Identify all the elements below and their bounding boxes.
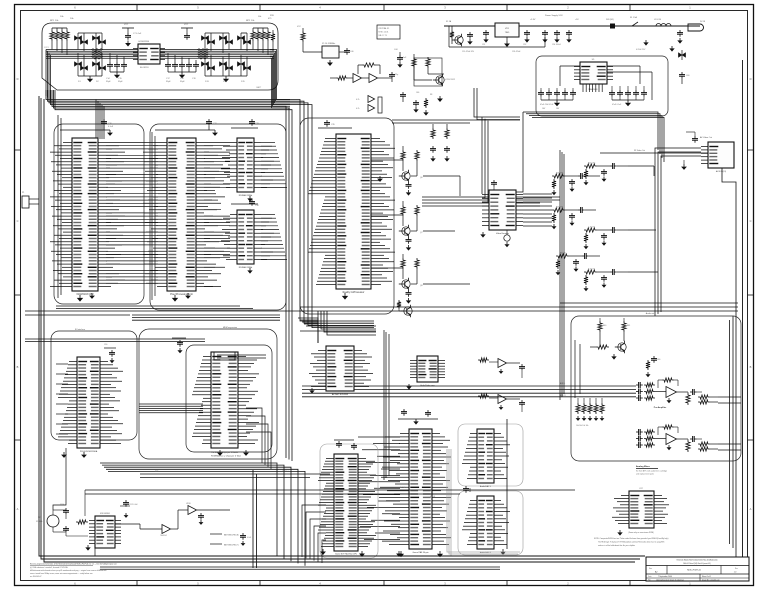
capacitor C14 C15 C16 filter caps left <box>109 53 111 62</box>
svg-text:C40: C40 <box>350 51 353 53</box>
svg-text:rev 2004-09-07: rev 2004-09-07 <box>30 575 42 578</box>
resistor pack comparators <box>378 97 382 113</box>
capacitor C80 bias <box>653 356 655 359</box>
svg-text:Analog Mixer: Analog Mixer <box>636 465 650 468</box>
ground U13 <box>311 388 313 390</box>
resistor F6 shunt <box>584 275 588 285</box>
capacitor C45 <box>402 92 404 95</box>
resistor network RP1 pull-ups <box>51 28 53 30</box>
ground audio divider <box>589 416 591 418</box>
wire bus encoder bottom pins <box>582 84 584 92</box>
svg-text:F1 2A: F1 2A <box>446 20 452 23</box>
resistor R8 <box>424 98 428 108</box>
svg-text:Nintendo Made (Nin)Tendo64 20: Nintendo Made (Nin)Tendo64 2001 Mar-06 (… <box>677 559 718 562</box>
capacitor AMP-R out <box>690 438 693 440</box>
title block date row <box>699 574 701 581</box>
container box audio DAC upper <box>458 424 523 486</box>
capacitor C111 <box>65 526 67 529</box>
svg-text:C: C <box>17 219 19 223</box>
svg-text:S1 1.5A: S1 1.5A <box>630 16 637 19</box>
resistor R2 feedback <box>362 63 376 67</box>
ground J3 <box>400 551 402 554</box>
svg-text:C-Vid 75: C-Vid 75 <box>588 227 595 229</box>
capacitor C105 slot bypass <box>334 439 354 441</box>
ground audio divider <box>577 416 579 418</box>
wire bus audio vertical pair <box>252 470 254 568</box>
ic U10 video DAC <box>489 190 516 230</box>
svg-text:AUDIO-L: AUDIO-L <box>282 470 289 473</box>
svg-text:BL01RN1: BL01RN1 <box>140 67 150 69</box>
label battery pad 1 <box>210 533 222 535</box>
capacitor F2 filter <box>603 169 605 172</box>
wire bus mid right pair <box>422 196 560 198</box>
table legend crystal frequencies <box>377 25 400 39</box>
diode D20 reverse protect <box>610 24 615 29</box>
wire bus PPU to RDRAM interconnect <box>204 142 230 144</box>
transistor Q10 audio <box>618 343 626 351</box>
svg-text:10k: 10k <box>258 16 261 18</box>
op-amp AMP-L pre-amplifier <box>666 387 677 398</box>
capacitor C110 <box>65 508 67 511</box>
comparator U8A <box>368 96 375 103</box>
svg-text:P1: P1 <box>22 192 24 194</box>
wire bus middle right segment <box>560 302 738 304</box>
svg-text:C52: C52 <box>523 44 526 46</box>
svg-text:Q8: Q8 <box>420 285 423 287</box>
svg-text:4.7k: 4.7k <box>356 108 359 110</box>
op-amp U19B buffer <box>188 506 197 515</box>
svg-text:Q7: Q7 <box>420 232 423 234</box>
svg-text:Reality CoProcessor: Reality CoProcessor <box>343 291 365 294</box>
capacitor AMP-L out <box>690 391 693 393</box>
container box memory outer <box>139 329 277 459</box>
wire bus DAC outputs fan <box>523 193 552 195</box>
wire video encoder bottom bus <box>523 112 658 150</box>
svg-text:RF Video Out: RF Video Out <box>634 149 645 152</box>
svg-text:B&Y (75): B&Y (75) <box>588 163 596 165</box>
svg-text:47uF 0.1uF: 47uF 0.1uF <box>612 104 622 106</box>
capacitor F4 coupling <box>610 229 613 231</box>
svg-text:AUD L: AUD L <box>560 382 565 385</box>
op-amp stage B <box>478 394 489 398</box>
inverter U7A <box>353 74 362 83</box>
wire bus cross middle <box>25 310 738 312</box>
capacitor C55 <box>568 30 570 33</box>
svg-text:U18 BU9801: U18 BU9801 <box>100 513 110 515</box>
ground U1 <box>79 295 81 298</box>
svg-text:47uF 47uF 47uF: 47uF 47uF 47uF <box>540 104 554 106</box>
ground U17 <box>619 530 621 532</box>
svg-text:C: C <box>750 219 752 223</box>
op-amp AMP-R pre-amplifier <box>666 434 677 445</box>
wire bus drop to CPU column <box>95 100 97 140</box>
label battery pad 2 <box>210 543 222 545</box>
svg-text:DC IN: DC IN <box>700 21 706 23</box>
wire bus right exit bend <box>270 50 290 100</box>
ic U4 EMI filter array <box>138 44 160 64</box>
ground U10 <box>482 232 484 234</box>
capacitor C70 bypass <box>493 180 495 183</box>
wire vertical pair PPU box <box>151 132 153 300</box>
svg-text:Pixel Processing Unit: Pixel Processing Unit <box>170 293 193 296</box>
resistor AMP-R feedback <box>662 425 674 429</box>
svg-text:Game PAK 50-pin: Game PAK 50-pin <box>413 551 429 554</box>
ic U6 Reality CoProcessor <box>336 134 371 289</box>
op-amp U19A buffer <box>162 525 171 534</box>
svg-text:RP1 10k: RP1 10k <box>50 20 59 22</box>
svg-text:R8: R8 <box>430 94 432 96</box>
svg-text:B: B <box>750 365 752 369</box>
ground audio divider <box>595 416 597 418</box>
transistor Q4 reset <box>436 76 444 84</box>
svg-text:and are is of the bufferboard: and are is of the bufferboard she fits y… <box>598 544 635 547</box>
capacitor Q7 emitter <box>408 237 410 240</box>
border zone ticks right <box>748 149 754 151</box>
capacitor C52 <box>526 30 528 33</box>
container box CPU group <box>54 124 144 304</box>
ground U20 <box>322 549 324 552</box>
svg-text:A: A <box>750 507 752 511</box>
ic U11 PIF-NUS <box>77 357 100 448</box>
wire stage outputs right <box>423 175 460 177</box>
wire bus video drop <box>559 150 561 400</box>
resistor F1 series <box>552 174 565 178</box>
wire bus brick right to game pak <box>246 408 262 463</box>
crystal X2 32kHz <box>47 515 59 527</box>
resistor F4 shunt <box>584 233 588 243</box>
ic U17 expansion audio <box>629 491 654 528</box>
wire bus AV connector drop <box>655 148 701 316</box>
wire vertical snake left of CPU <box>57 115 59 298</box>
svg-text:Rev: Rev <box>735 568 738 570</box>
svg-text:4.7k: 4.7k <box>356 99 359 101</box>
ground Q10 <box>613 354 615 356</box>
capacitor bank encoder right <box>611 86 613 90</box>
svg-text:Pre-Amplifier: Pre-Amplifier <box>654 406 667 409</box>
capacitor F6 coupling <box>610 271 613 273</box>
resistor AMP-R out pair <box>698 442 710 446</box>
svg-text:D: D <box>750 77 752 81</box>
wire audio outputs right <box>718 396 741 398</box>
wire bus brick header <box>217 354 266 356</box>
container box audio amplifier <box>571 316 741 461</box>
svg-text:33pF: 33pF <box>166 81 171 83</box>
ground encoder caps right <box>627 100 629 103</box>
ground controller filter left <box>89 76 91 79</box>
title block frame <box>646 557 749 581</box>
capacitor C33 bypass RAM1 <box>231 127 258 129</box>
ground filter F4 <box>603 241 605 243</box>
svg-text:ROM/Balance = Chips per 4 Tota: ROM/Balance = Chips per 4 Total <box>211 455 241 458</box>
wire right rail lower pair <box>732 316 734 548</box>
wire bus audio input lines <box>302 385 636 387</box>
svg-text:AV Video Out: AV Video Out <box>700 136 712 139</box>
connector P1 edge pad left frame <box>22 196 29 208</box>
ground AMP-L opamp <box>668 398 670 400</box>
container box serial interface <box>51 331 137 440</box>
capacitor C112 bypass <box>120 505 130 507</box>
resistor F2 shunt <box>584 169 588 179</box>
svg-text:Size: Size <box>649 568 652 570</box>
diode array D5-D8 lower <box>77 53 79 76</box>
inverter U7B <box>369 74 378 83</box>
svg-text:B: B <box>17 365 19 369</box>
wire bus main horizontal PI bus staircase <box>46 90 374 321</box>
ground U14 <box>408 384 410 386</box>
svg-text:RDRAM 18Mb: RDRAM 18Mb <box>239 266 253 269</box>
capacitor C31 bypass PPU <box>155 129 215 131</box>
capacitor C113 <box>200 513 202 516</box>
diode array D17 D18 upper far right <box>240 33 242 50</box>
diode array D9-D12 upper right <box>204 33 206 50</box>
svg-text:The Brick = Chips per 5 Banks: The Brick = Chips per 5 Banks <box>211 452 238 454</box>
ground filter F1 <box>571 187 573 189</box>
wire power rail top <box>444 25 700 27</box>
resistor F5 shunt <box>556 259 560 269</box>
ground U6 <box>344 293 346 296</box>
svg-text:Audio out: Audio out <box>646 312 655 315</box>
svg-text:Sheet 1 of 1: Sheet 1 of 1 <box>702 575 711 578</box>
wire J2 to right rail <box>722 168 736 560</box>
resistor Q8a collector <box>401 258 405 269</box>
ground audio divider <box>583 416 585 418</box>
svg-text:CRYSTAL X1: CRYSTAL X1 <box>379 27 390 30</box>
resistor R60 <box>76 520 88 524</box>
svg-text:PIF-NUS MX8330A: PIF-NUS MX8330A <box>80 450 98 453</box>
ground U5 <box>249 268 251 270</box>
svg-text:MEM expansion: MEM expansion <box>223 327 237 329</box>
svg-text:D: D <box>17 77 19 81</box>
capacitor C35 bypass RCP <box>318 127 352 129</box>
wire PIF left stubs <box>56 363 68 365</box>
container box cartridge CPU <box>320 444 378 558</box>
svg-text:NOTE: Composite/SVHS has two 7: NOTE: Composite/SVHS has two 75ohm video… <box>594 537 669 540</box>
ground U2 <box>174 295 176 298</box>
svg-text:d64.datsumei.net/schematics/nu: d64.datsumei.net/schematics/nus-cpu-p-01… <box>30 569 107 572</box>
capacitor C56 <box>679 30 681 33</box>
capacitor F2 coupling <box>610 165 613 167</box>
container box memory expansion <box>186 345 272 452</box>
wire stub rows below CPU <box>56 305 240 307</box>
ground R stack <box>432 156 434 158</box>
resistor array series bus left <box>91 49 103 51</box>
ground reset net <box>439 96 441 99</box>
capacitor C30 bypass CPU <box>60 129 110 131</box>
capacitor C114 battery <box>242 533 244 536</box>
svg-text:Audio-DAC L: Audio-DAC L <box>480 485 491 488</box>
svg-text:+3.3V: +3.3V <box>530 19 536 21</box>
resistor R33 475 ohm <box>272 30 274 32</box>
wire bus brick left entry <box>139 403 203 405</box>
svg-text:33pF: 33pF <box>118 81 123 83</box>
wire switched rail <box>449 46 545 48</box>
wire long clock lines <box>85 489 575 491</box>
ic U15 audio DAC L <box>477 429 494 483</box>
svg-text:C90: C90 <box>104 344 107 346</box>
svg-text:Drawn By: console5.com: Drawn By: console5.com <box>702 580 720 582</box>
container box controller port filter network <box>42 23 278 90</box>
capacitor F3 coupling <box>578 209 581 211</box>
wire bus slot CPU left bends <box>302 505 326 557</box>
capacitor F5 filter <box>575 259 577 262</box>
capacitor C8 bypass <box>186 28 188 33</box>
capacitor C50 input <box>469 32 471 35</box>
resistor R1 osc series <box>302 28 304 31</box>
ic U12 RDRAM brick <box>211 352 238 448</box>
svg-text:C7 0.1uF: C7 0.1uF <box>133 33 142 35</box>
capacitor C7 bypass VCC <box>127 28 129 33</box>
ground filter F3 <box>571 221 573 223</box>
svg-text:N64-01 Retail (V6) Nin-06 (exa: N64-01 Retail (V6) Nin-06 (exact-01) <box>683 562 711 565</box>
svg-text:10k 10k 10k 10k: 10k 10k 10k 10k <box>576 425 588 427</box>
svg-text:Q4 2SC2412: Q4 2SC2412 <box>444 79 455 81</box>
svg-text:AV-DAC BU9480F: AV-DAC BU9480F <box>332 393 349 396</box>
diode array D13-D16 lower right <box>204 53 206 76</box>
capacitor C51 <box>485 30 487 33</box>
container box video encoder <box>536 56 668 116</box>
ic U1 CPU main 64-bit <box>72 138 98 291</box>
resistor F4 series <box>584 228 597 232</box>
svg-text:0.22uF 25V: 0.22uF 25V <box>636 49 646 51</box>
resistor stack R20 R21 <box>431 128 435 139</box>
svg-text:VCC: VCC <box>297 26 302 28</box>
svg-text:VCC: VCC <box>184 24 189 26</box>
capacitor C90 PIF bypass <box>104 347 116 349</box>
svg-text:Audio-DAC R: Audio-DAC R <box>480 551 492 554</box>
svg-text:and replacement ports: and replacement ports <box>636 473 654 476</box>
resistor R42 bias chain <box>596 345 609 349</box>
svg-text:X1 14.318MHz: X1 14.318MHz <box>322 43 335 45</box>
svg-text:S-Vid 75: S-Vid 75 <box>588 269 595 271</box>
resistor F3 shunt <box>552 213 556 223</box>
svg-text:(c) 2004 robotman / console5,: (c) 2004 robotman / console5, licensed C… <box>30 566 68 569</box>
wire bus middle bend cluster <box>318 311 376 326</box>
svg-text:(From only on non-stereo ROM): (From only on non-stereo ROM) <box>628 531 654 534</box>
svg-text:Q6: Q6 <box>420 177 423 179</box>
wire bus DAC interconnect grey <box>447 449 520 552</box>
wire bus center horizontal pair <box>392 119 520 121</box>
svg-text:33pF: 33pF <box>180 81 185 83</box>
ic U2 Pixel Processing Unit <box>167 138 196 291</box>
svg-text:C54 100uF: C54 100uF <box>552 44 562 46</box>
wire bus encoder drop to video DAC <box>481 117 483 194</box>
border zone ticks top <box>136 5 138 11</box>
ground U18 <box>87 545 89 547</box>
capacitor F4 filter <box>603 233 605 236</box>
resistor bank audio divider <box>577 398 579 403</box>
wire bus mid horizontal main <box>100 463 277 557</box>
resistor R43 <box>646 360 650 370</box>
ic U16 audio DAC R <box>477 496 494 549</box>
transistor Q5 power switch <box>451 26 453 30</box>
svg-text:NTSC 14.31: NTSC 14.31 <box>379 32 389 34</box>
svg-text:errors: traced from 300dpi sca: errors: traced from 300dpi scans, some n… <box>30 572 93 575</box>
capacitor AMP-R input caps <box>636 431 639 433</box>
svg-text:Game BOY N64 Slot CPU: Game BOY N64 Slot CPU <box>335 553 358 556</box>
resistor AMP-R input resistors <box>644 430 655 434</box>
ground diode array right <box>225 76 227 79</box>
wire encoder connections <box>560 65 580 67</box>
capacitor Q6 emitter <box>408 182 410 185</box>
svg-text:33pF: 33pF <box>106 81 111 83</box>
svg-text:U4 MX8330: U4 MX8330 <box>138 41 150 43</box>
svg-text:C44: C44 <box>394 49 397 51</box>
svg-text:Reverse-engineered schematic o: Reverse-engineered schematic of the Nint… <box>30 563 117 566</box>
resistor Q6a collector <box>401 150 405 161</box>
ic U9 video encoder MAV-NUS <box>580 62 607 84</box>
transistor Q8 <box>402 280 410 288</box>
wire bus RDRAM right stubs <box>261 142 275 144</box>
ground filter F5 <box>575 267 577 269</box>
capacitor F3 filter <box>571 213 573 216</box>
wire amp stage outputs <box>521 371 523 378</box>
resistor R3 osc out <box>336 76 348 80</box>
wire game pak vcc rail <box>398 418 438 420</box>
capacitor F1 coupling <box>578 175 581 177</box>
container box PPU group <box>150 124 286 310</box>
svg-text:6102/6103 CPU: 6102/6103 CPU <box>76 293 93 296</box>
svg-text:The HDD big 4 75 by baseT V/T/: The HDD big 4 75 by baseT V/T/S/bus/phot… <box>598 541 664 544</box>
ground filter caps left <box>116 72 118 75</box>
wire bus bottom second <box>100 566 500 568</box>
wire bus mid labels lines <box>140 473 330 475</box>
ground J2 <box>683 160 685 164</box>
resistor Q8b base <box>415 258 419 269</box>
ground VR1 <box>506 37 508 41</box>
wire PIF bottom to clock circuit <box>53 448 66 510</box>
resistor array series bus right <box>197 49 209 51</box>
capacitor C54 <box>556 30 558 33</box>
ground encoder caps left <box>556 100 558 103</box>
border zone ticks left <box>15 149 21 151</box>
svg-text:C60: C60 <box>686 75 689 77</box>
capacitor Q8 emitter <box>408 290 410 293</box>
resistor R7 <box>426 57 430 68</box>
capacitor C46 <box>415 100 417 103</box>
wire bus reset to video <box>474 88 520 117</box>
ic U14 audio interface amp <box>417 356 438 382</box>
wire bus left exit down <box>45 50 47 97</box>
ic U18 RTC <box>95 516 115 548</box>
wire RF video out line <box>600 152 708 154</box>
wire osc32 outputs <box>115 523 140 525</box>
ground AMP-R opamp <box>668 445 670 447</box>
wire filter outputs to AV bus <box>628 165 654 167</box>
resistor R6 reset <box>413 54 415 57</box>
ground Q7 <box>408 245 410 247</box>
svg-text:A: A <box>17 507 19 511</box>
connector J1 DC power jack <box>688 24 704 31</box>
capacitor C100 C101 game pak <box>403 409 405 412</box>
border zone ticks bottom <box>136 581 138 586</box>
wire bus controller port 6 lines <box>46 49 274 51</box>
svg-text:Audio/Video amp: Audio/Video amp <box>420 384 434 387</box>
capacitor C64 C65 <box>432 146 434 149</box>
resistor AMP-L feedback <box>662 378 674 382</box>
resistor Q7b base <box>415 205 419 216</box>
svg-text:the from APC vids audio lines: the from APC vids audio lines cartridge <box>636 470 667 473</box>
capacitor C71 below U10 <box>504 235 510 241</box>
svg-text:C46: C46 <box>416 92 419 94</box>
resistor Q6b base <box>415 150 419 161</box>
resistor Q7a collector <box>401 205 405 216</box>
wire DAC supply vertical <box>506 419 508 549</box>
svg-text:V-CLK: V-CLK <box>430 496 436 498</box>
comparator U8B <box>368 105 375 112</box>
svg-text:RP2 10k: RP2 10k <box>246 20 255 22</box>
capacitor C44 reset <box>399 52 401 55</box>
resistor F3 series <box>552 208 565 212</box>
